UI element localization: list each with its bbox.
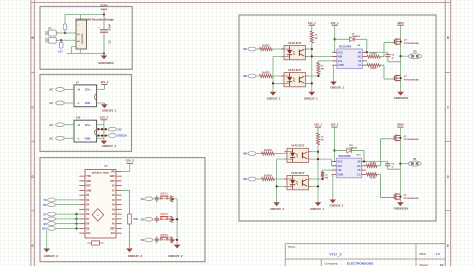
svg-text:12V_1: 12V_1: [331, 123, 339, 127]
power 320V (Q3): [397, 123, 404, 127]
svg-text:GND12V_1: GND12V_1: [102, 109, 117, 113]
power 12V_2 (arduino): [126, 158, 135, 163]
wire V10 12V+ output: [97, 124, 104, 126]
svg-text:E: E: [32, 244, 34, 248]
connector flag TX: [43, 198, 55, 202]
svg-text:U3 PC-817C: U3 PC-817C: [288, 70, 301, 72]
fuse F1: [63, 24, 67, 33]
svg-text:2KBP005M: 2KBP005M: [82, 33, 84, 44]
junction 12V_2 row: [97, 128, 107, 130]
AC-DC module V10: [74, 117, 97, 142]
wire opto1 collector: [306, 48, 312, 50]
svg-text:HO: HO: [357, 165, 361, 168]
ground GNDX320V: [394, 92, 409, 100]
connector flag AC (V9 line): [49, 88, 64, 92]
optocoupler U4: [284, 145, 311, 163]
junction collector 1: [311, 48, 313, 50]
svg-text:~N: ~N: [77, 88, 81, 92]
svg-text:E: E: [447, 244, 449, 248]
junction VB: [363, 160, 365, 162]
optocoupler U5: [284, 173, 311, 190]
svg-text:~L: ~L: [77, 136, 81, 140]
svg-text:COM: COM: [337, 173, 343, 176]
wire V9 GND output: [97, 103, 105, 104]
resistor (pull KEY3): [170, 237, 172, 243]
wire flag bus: [76, 214, 78, 228]
junction diode anode: [334, 38, 336, 40]
svg-text:1N4004: 1N4004: [352, 35, 360, 38]
resistor R12: [260, 72, 273, 78]
svg-text:HIN: HIN: [337, 165, 341, 168]
microcontroller V7 arduino_nano: [79, 165, 121, 238]
svg-text:IN3: IN3: [243, 152, 248, 156]
title text REV: [420, 252, 441, 256]
transistor Q3: [394, 134, 419, 141]
ground GND12V_1: [330, 200, 344, 208]
transistor Q2: [394, 75, 419, 82]
svg-text:5V: 5V: [112, 186, 115, 188]
ground GND12V_2: [267, 92, 281, 101]
svg-text:12V_2: 12V_2: [126, 158, 135, 162]
resistor R5: [310, 25, 318, 43]
connector plug P1: [46, 28, 59, 36]
junction collector 2: [321, 178, 323, 180]
wire D8: [56, 218, 80, 220]
wire IN4: [256, 178, 262, 180]
junction D10: [75, 227, 77, 229]
diode U9 1N4004: [335, 34, 367, 53]
svg-text:GND12V_2: GND12V_2: [102, 144, 117, 148]
wire V10 GND output: [97, 137, 104, 139]
ground GND12V_2 (module V10): [101, 141, 117, 149]
ground GND12V_2 (left): [43, 249, 58, 258]
svg-text:12V_1: 12V_1: [314, 123, 322, 127]
wire RX: [56, 204, 80, 206]
connector P4: [408, 158, 421, 166]
svg-text:U4 PC-817C: U4 PC-817C: [291, 145, 304, 148]
svg-text:GND12V_1: GND12V_1: [330, 203, 344, 207]
resistor R13: [262, 149, 275, 155]
ground GND12V_2 (center): [126, 249, 142, 258]
optocoupler U2: [281, 43, 308, 60]
svg-text:VIN: VIN: [111, 171, 115, 173]
resistor R1: [366, 139, 394, 168]
ground GND12V_2 (buttons): [168, 245, 183, 258]
svg-text:GND: GND: [86, 190, 91, 192]
section box microcontroller: [40, 158, 205, 262]
wire VB: [362, 161, 388, 163]
capacitor C5: [98, 15, 111, 54]
junction opto2 cathode: [275, 185, 277, 187]
capacitor (debounce KEY1): [155, 195, 159, 202]
wire IN2: [256, 75, 260, 77]
svg-text:GND12V_2: GND12V_2: [44, 254, 59, 258]
wire output P5: [401, 55, 409, 57]
junction AC line 1: [64, 32, 66, 34]
pushbutton KEY2: [160, 212, 169, 219]
section box power supply: [40, 7, 132, 70]
wire opto2 collector: [309, 178, 323, 180]
connector P5: [409, 51, 422, 59]
svg-text:320V: 320V: [397, 21, 404, 25]
wire COM to ground: [332, 174, 334, 199]
connector flag D9: [43, 222, 55, 226]
wire AC to V9 ~N: [64, 88, 74, 90]
ground GND12V_1: [330, 82, 344, 90]
svg-text:GND12V_2: GND12V_2: [267, 96, 281, 100]
junction bus KEY3: [176, 239, 178, 241]
AC-DC module V9: [74, 81, 97, 106]
wire arc V10: [95, 129, 97, 135]
capacitor C8: [385, 52, 400, 62]
wire collector 1 column: [317, 145, 319, 202]
svg-text:100uF: 100uF: [110, 23, 112, 30]
connector flag AC (V10 line): [49, 123, 64, 127]
connector flag B3: [141, 238, 153, 242]
svg-text:KEY2: KEY2: [161, 212, 169, 216]
wire drain column: [400, 25, 402, 92]
svg-text:AC?: AC?: [58, 50, 63, 53]
wire AC to V10 ~L: [64, 137, 74, 139]
svg-text:LIN: LIN: [338, 60, 342, 63]
svg-text:GND12V_2: GND12V_2: [270, 207, 284, 211]
svg-text:12V+: 12V+: [85, 88, 92, 92]
wire 12V_2 to arduino VIN: [122, 163, 130, 171]
wire output P4: [400, 163, 408, 165]
svg-text:12V_1: 12V_1: [331, 21, 339, 25]
wire R11 to opto: [272, 48, 284, 50]
svg-text:IR2101PBF: IR2101PBF: [339, 46, 352, 49]
wire COM to ground: [333, 65, 335, 81]
pushbutton KEY3: [160, 233, 169, 240]
wire V9 12V+ output: [97, 88, 105, 90]
capacitor (debounce KEY2): [155, 216, 159, 223]
junction emitter 1: [317, 158, 319, 160]
junction collector 2: [317, 75, 319, 77]
power 12V_1 (U9): [331, 21, 339, 25]
title block: [285, 244, 445, 266]
junction output: [399, 55, 401, 57]
svg-text:1.0: 1.0: [436, 252, 441, 256]
power 12V_1 (module V9): [100, 80, 109, 89]
wire opto2 emitter: [306, 82, 312, 84]
connector flag AC (V10 neutral): [49, 136, 64, 140]
junction collector 1: [317, 151, 319, 153]
svg-text:arduino_nano: arduino_nano: [92, 171, 110, 175]
resistor R3: [367, 43, 395, 59]
resistor R16 (bottom): [87, 241, 103, 245]
svg-text:RST: RST: [110, 181, 115, 183]
wire opto cathodes to ground: [277, 159, 287, 202]
svg-text:3V3: 3V3: [111, 233, 116, 235]
connector flag IN4: [243, 177, 256, 181]
wire collector 1 column: [311, 43, 313, 92]
gate driver U8 IR2101PBF: [332, 45, 367, 68]
ground GNDX320V: [394, 202, 409, 210]
connector flag D7: [43, 212, 55, 216]
svg-text:GNDX320V: GNDX320V: [394, 207, 409, 211]
svg-text:AC: AC: [49, 123, 53, 127]
connector flag IN3: [243, 152, 256, 156]
rectifier bridge B1: [75, 17, 114, 49]
capacitor C9: [385, 162, 400, 170]
svg-text:COM: COM: [338, 64, 344, 67]
resistor R6: [317, 61, 325, 76]
svg-text:IN2: IN2: [243, 74, 248, 78]
svg-text:IN4: IN4: [243, 177, 248, 181]
ground GND12V_1 (module V9): [101, 104, 117, 112]
svg-text:AC: AC: [49, 137, 53, 141]
wire R14 to opto: [274, 178, 287, 180]
wire bridge minus: [67, 47, 104, 54]
wire AC to V9 ~L: [64, 102, 74, 104]
svg-text:VS: VS: [358, 60, 362, 63]
svg-text:U5 PC-817C: U5 PC-817C: [291, 173, 304, 175]
connector flag RX: [43, 203, 55, 207]
junction D8: [75, 218, 77, 220]
indicator AC1: [58, 40, 63, 53]
wire D10: [56, 227, 80, 229]
title text Company: [325, 261, 374, 265]
title text VFD_3: [329, 252, 342, 257]
svg-text:Company:: Company:: [325, 261, 339, 265]
wire D9: [56, 223, 80, 225]
wire VCC rail: [332, 25, 337, 52]
junction AC line 2: [60, 39, 62, 41]
svg-text:GND12V_2: GND12V_2: [128, 254, 143, 258]
svg-text:~N: ~N: [77, 123, 81, 127]
svg-text:~L: ~L: [77, 101, 81, 105]
wire opto1 collector: [309, 151, 319, 153]
svg-text:TITLE:: TITLE:: [288, 245, 296, 249]
svg-text:LIN: LIN: [337, 169, 341, 172]
svg-text:10 R4: 10 R4: [370, 67, 377, 70]
resistor R7: [316, 127, 324, 145]
wire LIN: [318, 60, 337, 62]
power 12V_2 (module V10): [100, 116, 109, 141]
svg-text:PST030N06AO: PST030N06AO: [404, 138, 419, 141]
svg-text:GND12V: GND12V: [117, 135, 127, 138]
svg-text:GND12V_1: GND12V_1: [330, 85, 344, 89]
junction VB: [366, 51, 368, 53]
svg-text:VS: VS: [357, 169, 361, 172]
transistor Q4: [394, 193, 419, 200]
junction D7: [75, 213, 77, 215]
power 12V_1 (R7): [314, 123, 322, 127]
svg-text:PST030N06AO: PST030N06AO: [404, 42, 419, 45]
junction output: [399, 162, 401, 164]
wire opto1 emitter to HIN: [306, 55, 338, 57]
svg-text:KEY1: KEY1: [161, 192, 169, 196]
junction bus KEY2: [176, 218, 178, 220]
svg-text:RST: RST: [86, 186, 91, 188]
svg-text:V10: V10: [76, 117, 81, 120]
wire R12 to opto: [272, 75, 284, 77]
svg-text:GND: GND: [85, 136, 91, 140]
junction diode anode: [333, 149, 335, 151]
transistor Q1: [394, 38, 419, 45]
svg-text:GNDX320V: GNDX320V: [98, 61, 114, 65]
svg-text:TX: TX: [43, 199, 47, 202]
wire opto1 emitter to HIN: [309, 159, 337, 166]
wire B1 row: [153, 198, 177, 200]
section box driver stage: [239, 15, 436, 221]
wire AC line 1: [59, 32, 76, 34]
wire VB: [362, 51, 388, 53]
wire R13 to opto: [274, 153, 287, 155]
connector flag 12V output: [108, 127, 122, 131]
junction opto2 cathode: [272, 82, 274, 84]
svg-text:12V_1: 12V_1: [100, 80, 109, 84]
svg-text:LO: LO: [357, 173, 360, 176]
svg-text:VFD_3: VFD_3: [329, 252, 342, 257]
svg-text:12V+: 12V+: [85, 123, 92, 127]
wire arc V9: [95, 93, 97, 100]
svg-text:AC: AC: [49, 88, 53, 92]
junction D9: [75, 223, 77, 225]
svg-text:320V: 320V: [100, 3, 107, 7]
svg-text:VCC: VCC: [338, 51, 343, 54]
connector flag D8: [43, 217, 55, 221]
junction GND12V_2 row: [97, 134, 107, 136]
svg-text:12V_2: 12V_2: [100, 116, 109, 120]
junction emitter 1: [311, 55, 313, 57]
wire IN3: [256, 153, 262, 155]
junction emitter 2: [317, 185, 319, 187]
ground GND12V_1: [304, 92, 318, 101]
svg-text:VB: VB: [357, 161, 361, 164]
svg-text:PST030N06AO: PST030N06AO: [404, 78, 419, 81]
connector flag B1: [141, 197, 153, 201]
wire to ground (left): [46, 230, 48, 249]
wire drain column: [399, 127, 401, 202]
connector flag AC (V9 neutral): [49, 101, 64, 105]
resistor R15: [122, 190, 139, 248]
wire TX: [56, 199, 80, 201]
svg-text:R15: R15: [134, 218, 139, 221]
wire AC line 2: [59, 39, 76, 41]
diode U11 1N4004: [335, 145, 365, 162]
section box AC-DC modules: [40, 75, 132, 152]
gate driver U10 IR2101PBF: [332, 154, 367, 177]
ground GNDX320V: [98, 54, 114, 66]
wire LIN: [323, 169, 337, 171]
resistor R4: [367, 64, 395, 79]
wire B2 row: [153, 218, 177, 220]
svg-text:GND12V_1: GND12V_1: [304, 96, 318, 100]
svg-text:U2 PC-817C: U2 PC-817C: [288, 43, 301, 45]
svg-text:RX: RX: [43, 204, 47, 207]
junction ground rail: [103, 52, 105, 54]
resistor R8: [321, 170, 329, 180]
resistor (pull KEY2): [170, 216, 172, 222]
svg-text:1N4004: 1N4004: [349, 146, 357, 149]
svg-text:320V: 320V: [397, 123, 404, 127]
svg-text:KEY3: KEY3: [161, 233, 169, 237]
svg-text:RXD: RXD: [86, 181, 91, 183]
connector flag IN2: [243, 74, 256, 78]
pushbutton KEY1: [160, 192, 169, 199]
wire opto cathodes to ground: [273, 56, 284, 91]
svg-text:D10: D10: [86, 233, 91, 235]
svg-text:VCC: VCC: [337, 161, 342, 164]
svg-text:V?: V?: [76, 81, 80, 84]
junction KEY1: [172, 198, 174, 200]
svg-text:TXD: TXD: [86, 176, 91, 178]
wire opto2 collector: [306, 75, 319, 77]
svg-text:AC: AC: [49, 101, 53, 105]
power 320V (Q1): [397, 21, 404, 25]
svg-text:PST030N06AO: PST030N06AO: [404, 197, 419, 200]
svg-text:IN1: IN1: [243, 47, 248, 51]
junction emitter 2: [311, 82, 313, 84]
svg-text:IR2101PBF: IR2101PBF: [338, 155, 351, 158]
svg-text:GNDX320V: GNDX320V: [394, 96, 409, 100]
wire button ground bus: [176, 199, 178, 245]
capacitor (debounce KEY3): [155, 236, 159, 243]
wire 320V rail: [65, 9, 104, 24]
power +320V: [100, 3, 107, 9]
resistor R2: [366, 173, 394, 198]
junction KEY2: [172, 219, 174, 221]
svg-text:GND12V_1: GND12V_1: [310, 207, 324, 211]
resistor R14: [262, 175, 275, 181]
svg-text:ELECTRONOOBS: ELECTRONOOBS: [347, 262, 373, 266]
svg-text:GND: GND: [85, 101, 91, 105]
svg-text:GND: GND: [110, 176, 115, 178]
title text Sheet: [420, 263, 445, 266]
wire IN1: [256, 48, 260, 50]
svg-text:10 R2: 10 R2: [370, 177, 377, 179]
power 12V_1 (R5): [308, 21, 316, 25]
wire AC to V10 ~N: [64, 124, 74, 126]
svg-text:VB: VB: [358, 51, 362, 54]
svg-text:REF: REF: [110, 228, 115, 230]
resistor (pull KEY1): [170, 196, 172, 202]
wire B3 row: [153, 239, 177, 241]
connector flag IN1: [243, 47, 256, 51]
wire D7: [56, 213, 80, 215]
svg-text:V?: V?: [105, 165, 109, 168]
connector flag GND output: [108, 134, 127, 138]
junction 320V: [103, 13, 105, 15]
connector plug P2: [46, 37, 59, 43]
svg-text:GND12V_2: GND12V_2: [168, 254, 183, 258]
svg-text:HIN: HIN: [338, 56, 342, 59]
svg-text:12V_1: 12V_1: [308, 21, 316, 25]
wire opto2 emitter: [309, 185, 319, 187]
svg-text:12V: 12V: [117, 128, 122, 131]
power 12V_1 (U11): [331, 123, 339, 127]
title text TITLE: [288, 245, 296, 249]
svg-text:REV:: REV:: [420, 252, 427, 256]
svg-text:HO: HO: [358, 56, 362, 59]
wire 12V_2 distribution: [97, 129, 109, 135]
junction KEY3: [172, 239, 174, 241]
connector flag D10: [42, 227, 55, 231]
svg-text:LO: LO: [358, 64, 361, 67]
optocoupler U3: [281, 70, 308, 87]
resistor R11: [260, 45, 273, 51]
wire VCC rail: [332, 127, 337, 161]
connector flag B2: [141, 217, 153, 221]
ground GND12V_1: [310, 202, 324, 211]
ground GND12V_2: [270, 202, 284, 211]
